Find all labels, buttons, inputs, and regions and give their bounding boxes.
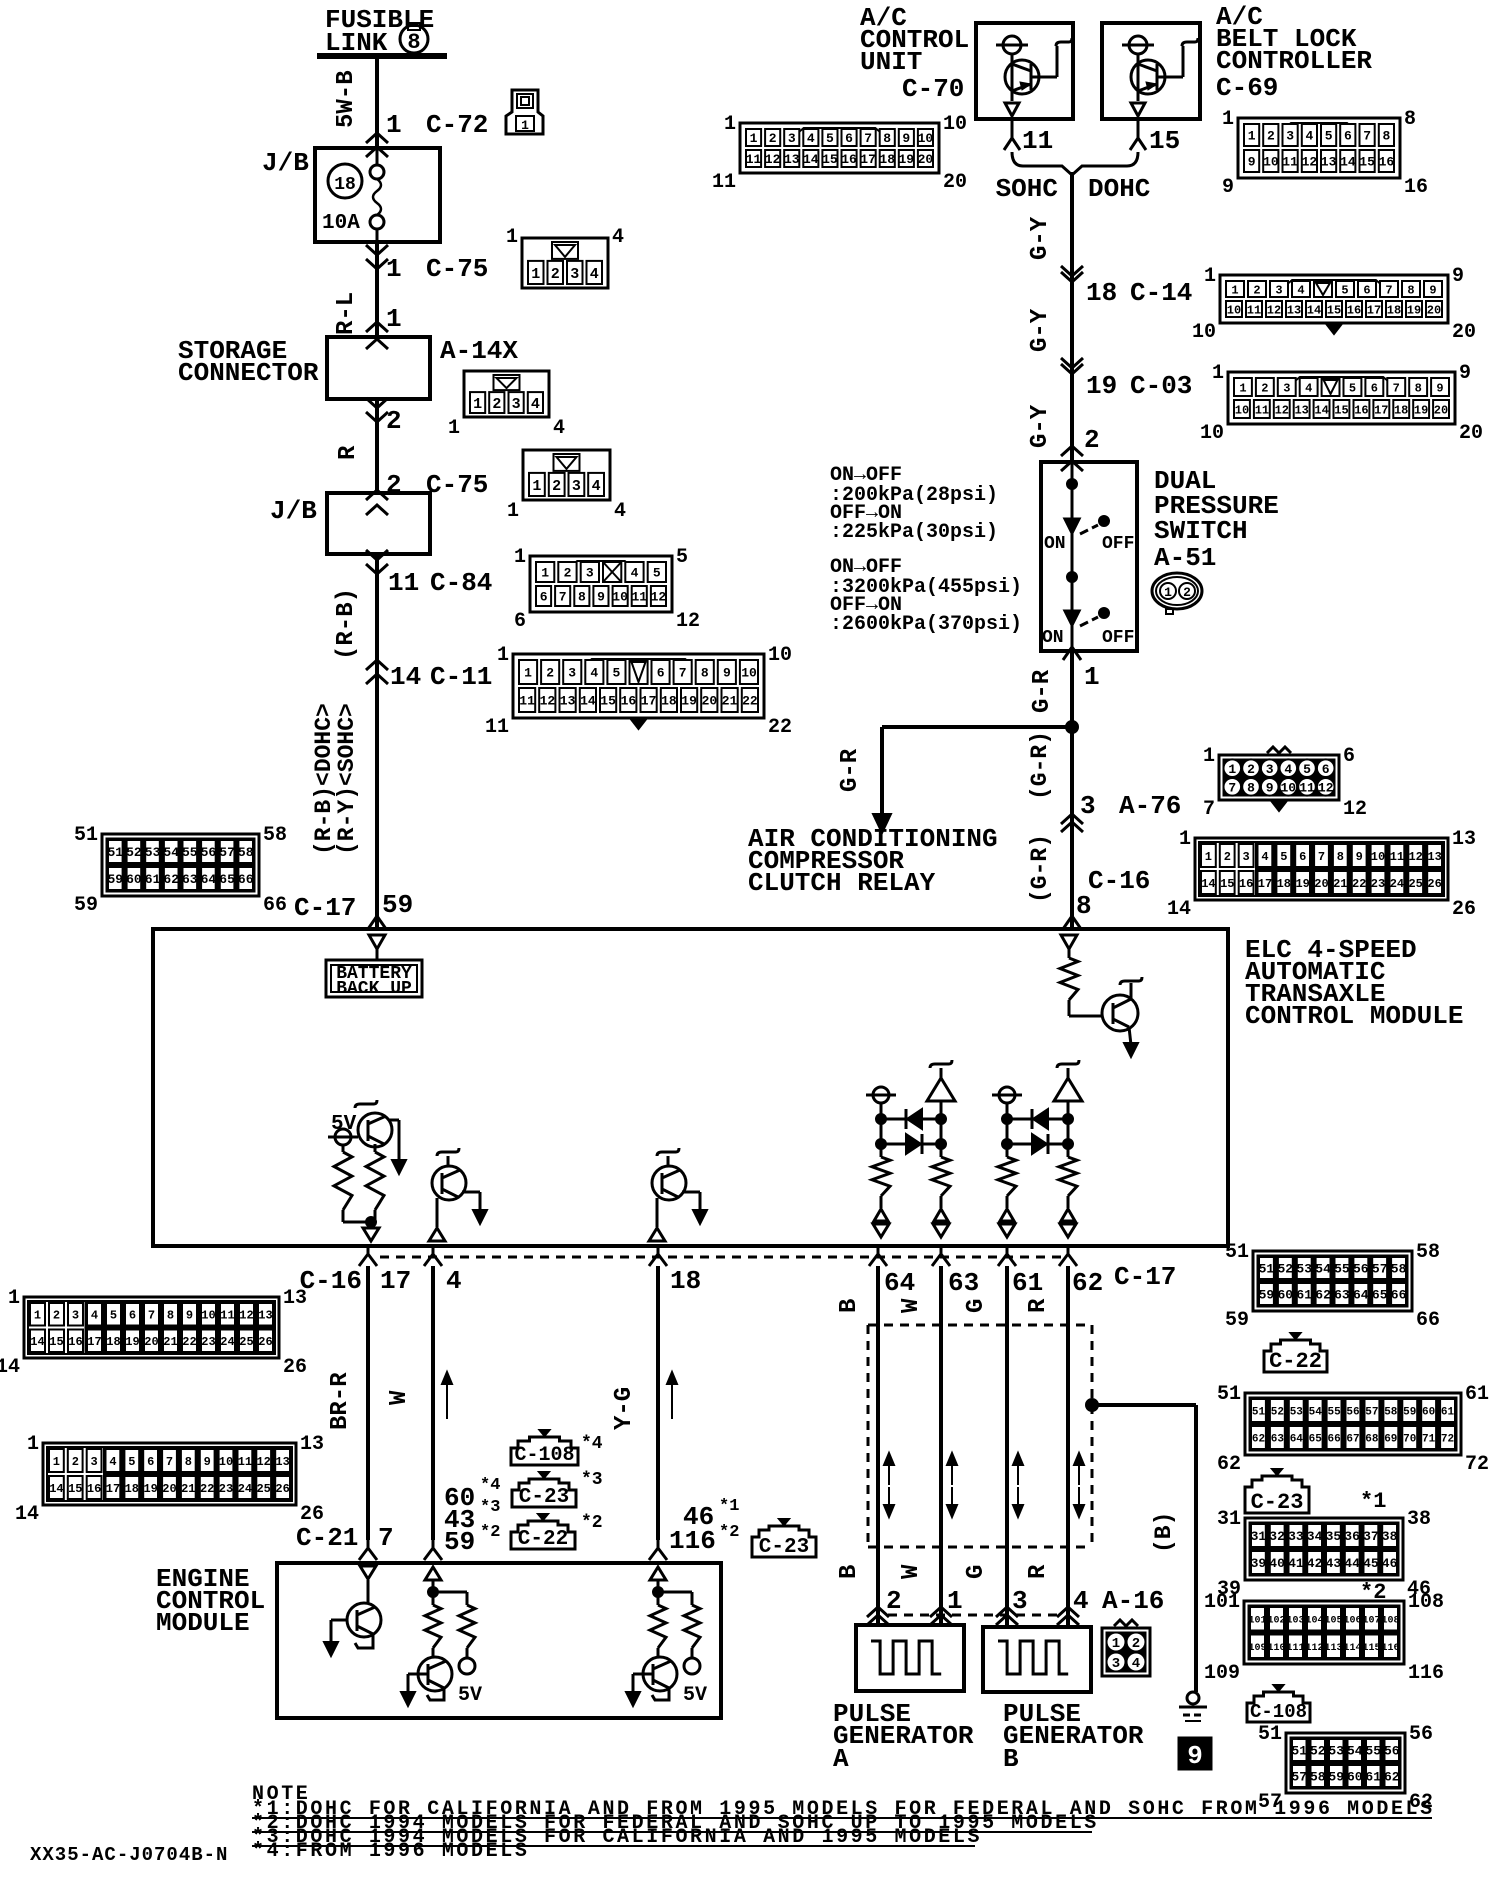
svg-text:12: 12 bbox=[1267, 303, 1281, 317]
connector C-22 ref box right bbox=[1264, 1340, 1327, 1372]
pulse generator B waveform bbox=[998, 1641, 1068, 1674]
svg-text:CONNECTOR: CONNECTOR bbox=[178, 358, 319, 388]
connector symbol pulse generator x=941 bbox=[930, 1607, 952, 1617]
connector C-84 bbox=[530, 556, 672, 612]
svg-text:J/B: J/B bbox=[262, 148, 309, 178]
svg-text:26: 26 bbox=[1452, 898, 1476, 921]
svg-text:13: 13 bbox=[1321, 155, 1337, 170]
svg-text:17: 17 bbox=[860, 152, 876, 167]
branch wire to compressor relay bbox=[882, 725, 1072, 729]
svg-text:A: A bbox=[833, 1744, 849, 1774]
pulse generator A interface big triangle bbox=[930, 1060, 952, 1068]
svg-text:10: 10 bbox=[1371, 850, 1385, 864]
svg-text:15: 15 bbox=[822, 152, 838, 167]
transistor in A/C unit 1 bbox=[996, 44, 1028, 47]
svg-text:59: 59 bbox=[74, 894, 98, 917]
svg-text:63: 63 bbox=[948, 1268, 979, 1298]
svg-text:*1: *1 bbox=[1360, 1489, 1386, 1514]
svg-text:21: 21 bbox=[1333, 877, 1347, 891]
svg-text:62: 62 bbox=[1072, 1268, 1103, 1298]
svg-text:1: 1 bbox=[532, 478, 541, 495]
svg-text:G: G bbox=[963, 1565, 990, 1579]
connector C-75 (second) bbox=[523, 450, 610, 500]
svg-text:4: 4 bbox=[1073, 1586, 1089, 1616]
svg-text:C-22: C-22 bbox=[518, 1528, 568, 1551]
svg-text:104: 104 bbox=[1305, 1615, 1323, 1626]
svg-text:40: 40 bbox=[1269, 1556, 1285, 1571]
svg-text:72: 72 bbox=[1441, 1434, 1454, 1446]
svg-text:13: 13 bbox=[1427, 850, 1441, 864]
svg-text:(R-B): (R-B) bbox=[333, 588, 360, 660]
svg-text:51: 51 bbox=[1258, 1723, 1282, 1746]
svg-text:A-76: A-76 bbox=[1119, 791, 1181, 821]
svg-text:19: 19 bbox=[1295, 877, 1309, 891]
svg-text:(G-R): (G-R) bbox=[1027, 834, 1053, 903]
svg-text:22: 22 bbox=[1352, 877, 1366, 891]
resistor R2 bbox=[342, 1145, 345, 1152]
svg-text:9: 9 bbox=[1222, 176, 1234, 199]
svg-text:C-03: C-03 bbox=[1130, 371, 1192, 401]
svg-text:18: 18 bbox=[106, 1335, 120, 1349]
svg-text:3: 3 bbox=[90, 1455, 97, 1469]
pin fork 64 bbox=[877, 1246, 880, 1254]
svg-text:SOHC: SOHC bbox=[996, 174, 1058, 204]
connector A-14X bbox=[464, 371, 549, 417]
svg-text:4: 4 bbox=[531, 396, 540, 413]
connector symbol pulse generator x=878 bbox=[867, 1607, 889, 1617]
svg-text:C-75: C-75 bbox=[426, 254, 488, 284]
svg-text:3: 3 bbox=[570, 266, 579, 283]
svg-text:CLUTCH RELAY: CLUTCH RELAY bbox=[748, 868, 936, 898]
svg-text:5: 5 bbox=[1280, 850, 1287, 864]
svg-text:13: 13 bbox=[275, 1455, 289, 1469]
svg-text:24: 24 bbox=[238, 1482, 252, 1496]
svg-text:116: 116 bbox=[1408, 1662, 1444, 1685]
battery backup box bbox=[326, 960, 422, 997]
svg-text:5: 5 bbox=[128, 1455, 135, 1469]
svg-text:8: 8 bbox=[883, 131, 891, 146]
svg-text:5: 5 bbox=[1303, 762, 1311, 777]
svg-text:(B): (B) bbox=[1151, 1512, 1177, 1553]
entry triangle left bbox=[369, 935, 385, 949]
svg-text:20: 20 bbox=[162, 1482, 176, 1496]
svg-text:5W-B: 5W-B bbox=[333, 70, 360, 128]
svg-text:R: R bbox=[1025, 1564, 1052, 1579]
svg-text:6: 6 bbox=[147, 1455, 154, 1469]
svg-text:110: 110 bbox=[1267, 1643, 1285, 1654]
svg-text:4: 4 bbox=[109, 1455, 116, 1469]
svg-text:35: 35 bbox=[1326, 1529, 1342, 1544]
svg-text:W: W bbox=[898, 1564, 925, 1579]
fuse element bbox=[370, 165, 384, 179]
svg-text:68: 68 bbox=[1365, 1434, 1379, 1446]
svg-text:54: 54 bbox=[1309, 1407, 1323, 1419]
inline connector symbol (chevrons) bbox=[366, 133, 388, 143]
svg-text:1: 1 bbox=[750, 131, 758, 146]
svg-text:1: 1 bbox=[506, 226, 518, 249]
svg-text:61: 61 bbox=[145, 872, 161, 887]
svg-text:11: 11 bbox=[746, 152, 762, 167]
svg-text:9: 9 bbox=[1452, 265, 1464, 288]
svg-text:39: 39 bbox=[1251, 1556, 1267, 1571]
svg-text:102: 102 bbox=[1267, 1615, 1285, 1626]
svg-text:61: 61 bbox=[1465, 1383, 1489, 1406]
svg-text:SWITCH: SWITCH bbox=[1154, 516, 1248, 546]
svg-text:9: 9 bbox=[204, 1455, 211, 1469]
wire Y-G bbox=[656, 1266, 660, 1540]
svg-text:26: 26 bbox=[275, 1482, 289, 1496]
connector C-03 bbox=[1228, 372, 1455, 424]
svg-text:14: 14 bbox=[49, 1482, 63, 1496]
connector C-17 (51-72) bbox=[1245, 1393, 1461, 1455]
svg-text:54: 54 bbox=[1347, 1744, 1363, 1759]
signal arrows at x=952 bbox=[951, 1455, 953, 1485]
svg-text:1: 1 bbox=[473, 396, 482, 413]
5V circuit junction bbox=[342, 1210, 345, 1222]
entry triangle right bbox=[1061, 935, 1077, 949]
svg-text:61: 61 bbox=[1441, 1407, 1455, 1419]
svg-text:C-108: C-108 bbox=[514, 1444, 574, 1467]
svg-text:*4:FROM 1996 MODELS: *4:FROM 1996 MODELS bbox=[252, 1840, 529, 1863]
svg-text:67: 67 bbox=[1346, 1434, 1359, 1446]
svg-text:7: 7 bbox=[1363, 129, 1371, 144]
svg-text:10: 10 bbox=[943, 113, 967, 136]
pin symbol 17 bbox=[363, 1228, 379, 1241]
svg-text:54: 54 bbox=[1315, 1262, 1331, 1277]
svg-text:43: 43 bbox=[1326, 1556, 1342, 1571]
pulse generator B interface supply circle bbox=[992, 1094, 1022, 1097]
svg-text:6: 6 bbox=[657, 666, 665, 681]
svg-text:52: 52 bbox=[1271, 1407, 1284, 1419]
svg-text:1: 1 bbox=[1231, 283, 1238, 297]
pulse generator B interface pin symbols bbox=[1006, 1196, 1009, 1208]
pulse generator B box bbox=[983, 1627, 1091, 1692]
svg-text:55: 55 bbox=[182, 845, 198, 860]
svg-text:4: 4 bbox=[807, 131, 815, 146]
svg-text:10: 10 bbox=[612, 590, 628, 605]
svg-text:10: 10 bbox=[1263, 155, 1279, 170]
shield drain wire (B) bbox=[1092, 1403, 1196, 1407]
svg-text:4: 4 bbox=[91, 1309, 98, 1323]
svg-text:6: 6 bbox=[540, 590, 548, 605]
pin symbol 4 bbox=[429, 1228, 445, 1241]
svg-text:2: 2 bbox=[53, 1309, 60, 1323]
svg-text:26: 26 bbox=[300, 1503, 324, 1526]
svg-text:20: 20 bbox=[1452, 321, 1476, 344]
svg-text:2: 2 bbox=[546, 666, 554, 681]
svg-text:1: 1 bbox=[947, 1586, 963, 1616]
svg-text:26: 26 bbox=[258, 1335, 272, 1349]
svg-text:10: 10 bbox=[1200, 422, 1224, 445]
svg-text:(G-R): (G-R) bbox=[1027, 731, 1053, 800]
svg-text:108: 108 bbox=[1408, 1591, 1444, 1614]
svg-text:7: 7 bbox=[1228, 780, 1236, 795]
svg-text:56: 56 bbox=[1346, 1407, 1359, 1419]
svg-text:16: 16 bbox=[841, 152, 857, 167]
svg-text:*3: *3 bbox=[480, 1498, 500, 1517]
svg-text:7: 7 bbox=[378, 1523, 394, 1553]
svg-text:63: 63 bbox=[182, 872, 198, 887]
svg-text:14: 14 bbox=[30, 1335, 44, 1349]
connector C-23 ref box b bbox=[752, 1526, 816, 1557]
svg-text:9: 9 bbox=[723, 666, 731, 681]
engine control module box bbox=[277, 1563, 721, 1718]
svg-text:11: 11 bbox=[220, 1309, 234, 1323]
svg-text:20: 20 bbox=[702, 694, 718, 709]
svg-text:113: 113 bbox=[1324, 1643, 1342, 1654]
svg-text:17: 17 bbox=[87, 1335, 101, 1349]
svg-text:56: 56 bbox=[1353, 1262, 1369, 1277]
svg-text:9: 9 bbox=[1356, 850, 1363, 864]
svg-text:C-17: C-17 bbox=[294, 893, 356, 923]
svg-text:59: 59 bbox=[1225, 1309, 1249, 1332]
svg-text:1: 1 bbox=[53, 1455, 60, 1469]
svg-text:W: W bbox=[386, 1390, 413, 1405]
svg-text:25: 25 bbox=[1408, 877, 1422, 891]
svg-text:14: 14 bbox=[803, 152, 819, 167]
connector C-14 bbox=[1220, 275, 1448, 323]
pin fork 61 bbox=[1006, 1246, 1009, 1254]
svg-text:12: 12 bbox=[1343, 798, 1367, 821]
A/C unit 2 pin 15 fork bbox=[1137, 119, 1140, 133]
svg-text:7: 7 bbox=[1385, 283, 1392, 297]
svg-text:4: 4 bbox=[631, 566, 639, 581]
pin fork 4 bbox=[432, 1246, 435, 1254]
connector C-75 (top) bbox=[522, 238, 608, 288]
svg-text:8: 8 bbox=[167, 1309, 174, 1323]
wire to battery backup bbox=[376, 949, 379, 960]
svg-text:13: 13 bbox=[1287, 303, 1301, 317]
svg-text:66: 66 bbox=[263, 894, 287, 917]
svg-text:12: 12 bbox=[676, 610, 700, 633]
svg-text:2: 2 bbox=[1261, 381, 1268, 395]
connector C-22 ref box bbox=[511, 1521, 575, 1549]
svg-text:14: 14 bbox=[1201, 877, 1215, 891]
svg-text:1: 1 bbox=[1222, 108, 1234, 131]
svg-text:1: 1 bbox=[531, 266, 540, 283]
connector A-51 oval bbox=[1152, 573, 1202, 609]
connector C-21 (1-26) far left bbox=[43, 1443, 296, 1505]
svg-text:10A: 10A bbox=[322, 212, 360, 235]
svg-text:A-51: A-51 bbox=[1154, 543, 1216, 573]
svg-text:B: B bbox=[836, 1299, 863, 1313]
svg-text:ON: ON bbox=[1044, 534, 1066, 554]
wire W direction arrow bbox=[446, 1374, 448, 1419]
svg-text:UNIT: UNIT bbox=[860, 47, 922, 77]
svg-text:1: 1 bbox=[1212, 362, 1224, 385]
svg-text:C-17: C-17 bbox=[1114, 1262, 1176, 1292]
svg-text:1: 1 bbox=[524, 666, 532, 681]
junction dot G-R bbox=[1066, 721, 1078, 733]
svg-text:17: 17 bbox=[106, 1482, 120, 1496]
svg-text:18: 18 bbox=[1387, 303, 1401, 317]
connector boundary dash line C-16/C-17 bbox=[380, 1256, 1062, 1259]
switch exit fork bbox=[1071, 625, 1074, 642]
connector C-17 (51-66) left bbox=[102, 834, 259, 896]
svg-text:2: 2 bbox=[564, 566, 572, 581]
svg-text:20: 20 bbox=[918, 152, 934, 167]
svg-text:18: 18 bbox=[334, 175, 356, 195]
svg-text:60: 60 bbox=[1347, 1770, 1363, 1785]
switch wire upper bbox=[1071, 462, 1074, 522]
svg-text:*2: *2 bbox=[719, 1523, 739, 1542]
pulse generator B interface diode D2 bbox=[1007, 1143, 1068, 1146]
svg-text:6: 6 bbox=[1371, 381, 1378, 395]
svg-text:46: 46 bbox=[1382, 1556, 1398, 1571]
svg-text:59: 59 bbox=[382, 890, 413, 920]
pulse generator B interface resistor right bbox=[1059, 1157, 1077, 1196]
wire Y-G direction arrow bbox=[671, 1374, 673, 1419]
junction block J/B 2 box bbox=[327, 493, 430, 554]
svg-text:59: 59 bbox=[444, 1527, 475, 1557]
svg-text:59: 59 bbox=[1403, 1407, 1416, 1419]
svg-text:60: 60 bbox=[1422, 1407, 1435, 1419]
svg-text:51: 51 bbox=[1291, 1744, 1307, 1759]
svg-text:16: 16 bbox=[1379, 155, 1395, 170]
svg-text:5: 5 bbox=[1325, 129, 1333, 144]
svg-text:(R-Y)<SOHC>: (R-Y)<SOHC> bbox=[334, 703, 360, 855]
connector symbol into storage connector bbox=[366, 322, 388, 332]
svg-text:*1: *1 bbox=[719, 1497, 739, 1516]
connector C-72 bbox=[506, 90, 543, 134]
svg-text:38: 38 bbox=[1382, 1529, 1398, 1544]
wire G-R below switch bbox=[1070, 651, 1074, 929]
svg-text:8: 8 bbox=[1076, 891, 1092, 921]
svg-text:11: 11 bbox=[1022, 126, 1053, 156]
svg-text:52: 52 bbox=[126, 845, 142, 860]
svg-text:9: 9 bbox=[1459, 362, 1471, 385]
svg-text:C-14: C-14 bbox=[1130, 278, 1192, 308]
svg-text:22: 22 bbox=[742, 694, 758, 709]
svg-text:18: 18 bbox=[1394, 403, 1408, 417]
svg-text:MODULE: MODULE bbox=[156, 1608, 250, 1638]
svg-text:7: 7 bbox=[864, 131, 872, 146]
svg-text:2: 2 bbox=[1084, 425, 1100, 455]
svg-text:64: 64 bbox=[884, 1268, 915, 1298]
svg-text:45: 45 bbox=[1363, 1556, 1379, 1571]
svg-text:70: 70 bbox=[1403, 1434, 1416, 1446]
connector symbol below storage connector bbox=[366, 398, 388, 408]
A/C control unit box (SOHC) bbox=[976, 23, 1073, 119]
svg-text:3: 3 bbox=[1283, 381, 1290, 395]
svg-text:11: 11 bbox=[485, 716, 509, 739]
svg-text:1: 1 bbox=[1248, 129, 1256, 144]
fork into control module right bbox=[1071, 908, 1074, 916]
svg-text:13: 13 bbox=[258, 1309, 272, 1323]
svg-text:107: 107 bbox=[1362, 1615, 1380, 1626]
svg-text:*2: *2 bbox=[480, 1523, 500, 1542]
pin fork 17 bbox=[367, 1246, 370, 1254]
transistor Q1 bbox=[1102, 995, 1138, 1031]
connector symbol C-11 bbox=[366, 660, 388, 670]
svg-text:62: 62 bbox=[1315, 1288, 1331, 1303]
connector 101-116 bbox=[1244, 1601, 1404, 1664]
svg-text:58: 58 bbox=[1310, 1770, 1326, 1785]
svg-text:A-16: A-16 bbox=[1102, 1586, 1164, 1616]
svg-text:10: 10 bbox=[219, 1455, 233, 1469]
svg-text:8: 8 bbox=[1415, 381, 1422, 395]
svg-text:GENERATOR: GENERATOR bbox=[833, 1721, 974, 1751]
ECM entry triangle mid bbox=[425, 1567, 441, 1580]
svg-text:3: 3 bbox=[1275, 283, 1282, 297]
svg-text:14: 14 bbox=[1340, 155, 1356, 170]
connector A-76 bbox=[1219, 755, 1339, 800]
wire G-Y from brace bbox=[1070, 172, 1074, 462]
svg-text:1: 1 bbox=[386, 254, 402, 284]
svg-text:2: 2 bbox=[386, 470, 402, 500]
storage connector box bbox=[327, 337, 430, 399]
svg-text:15: 15 bbox=[1359, 155, 1375, 170]
svg-text:CONTROLLER: CONTROLLER bbox=[1216, 46, 1372, 76]
connector C-108 ref box right bbox=[1247, 1692, 1310, 1722]
svg-text:58: 58 bbox=[1416, 1241, 1440, 1264]
svg-text:12: 12 bbox=[256, 1455, 270, 1469]
svg-text:5: 5 bbox=[1341, 283, 1348, 297]
svg-text:58: 58 bbox=[238, 845, 254, 860]
pulse generator A interface diode D2 bbox=[881, 1143, 941, 1146]
svg-text:3: 3 bbox=[572, 478, 581, 495]
svg-text:7: 7 bbox=[559, 590, 567, 605]
svg-text:3: 3 bbox=[1286, 129, 1294, 144]
svg-text:6: 6 bbox=[1363, 283, 1370, 297]
A/C control unit pin 11 fork bbox=[1011, 119, 1014, 133]
pulse generator B interface resistor left bbox=[998, 1157, 1016, 1196]
svg-text:1: 1 bbox=[386, 110, 402, 140]
wire R2 bbox=[1066, 1266, 1070, 1627]
svg-text:4: 4 bbox=[1305, 129, 1313, 144]
svg-text:3: 3 bbox=[586, 566, 594, 581]
svg-text:1: 1 bbox=[497, 644, 509, 667]
svg-text:2: 2 bbox=[1267, 129, 1275, 144]
svg-text:G: G bbox=[963, 1299, 990, 1313]
svg-text:*3: *3 bbox=[581, 1470, 603, 1490]
svg-text:10: 10 bbox=[741, 666, 757, 681]
connector C-69 bbox=[1238, 118, 1400, 178]
svg-text:109: 109 bbox=[1204, 1662, 1240, 1685]
svg-text:Y-G: Y-G bbox=[611, 1387, 638, 1430]
pulse generator B interface junction dots bbox=[1002, 1114, 1012, 1124]
connector C-16 right bbox=[1195, 838, 1448, 900]
svg-text:14: 14 bbox=[1307, 303, 1321, 317]
svg-text:101: 101 bbox=[1204, 1591, 1240, 1614]
svg-text:64: 64 bbox=[201, 872, 217, 887]
svg-text:12: 12 bbox=[540, 694, 556, 709]
ECM circuit right bbox=[657, 1580, 660, 1592]
svg-text:11: 11 bbox=[1247, 303, 1261, 317]
svg-text:C-16: C-16 bbox=[300, 1266, 362, 1296]
connector symbol C-03 bbox=[1061, 358, 1083, 368]
svg-text:4: 4 bbox=[614, 500, 626, 523]
svg-text:9: 9 bbox=[1266, 780, 1274, 795]
brace joining 11/15 bbox=[1012, 152, 1138, 175]
svg-text:2: 2 bbox=[386, 406, 402, 436]
svg-text:GENERATOR: GENERATOR bbox=[1003, 1721, 1144, 1751]
svg-text:1: 1 bbox=[514, 546, 526, 569]
svg-text:10: 10 bbox=[768, 644, 792, 667]
wire R-B bbox=[375, 554, 379, 929]
svg-text:1: 1 bbox=[521, 118, 529, 133]
pulse generator A interface supply circle bbox=[866, 1094, 896, 1097]
svg-text:6: 6 bbox=[129, 1309, 136, 1323]
svg-text:62: 62 bbox=[1384, 1770, 1400, 1785]
svg-text:58: 58 bbox=[1384, 1407, 1398, 1419]
svg-text:2: 2 bbox=[769, 131, 777, 146]
svg-text:4: 4 bbox=[1132, 1656, 1140, 1672]
svg-text:3: 3 bbox=[72, 1309, 79, 1323]
svg-text:1: 1 bbox=[8, 1287, 20, 1310]
pin fork 18 bbox=[657, 1246, 660, 1254]
svg-text:51: 51 bbox=[1259, 1262, 1275, 1277]
